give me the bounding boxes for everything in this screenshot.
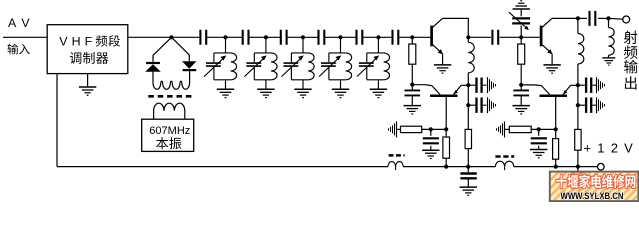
wire Q3 base down: [445, 97, 447, 129]
svg-text:A V: A V: [8, 16, 31, 30]
trimmer capacitor CT6: [520, 10, 522, 17]
trimmer capacitor CT5: [357, 55, 379, 76]
ground tank4: [332, 89, 349, 97]
transformer T1 primary: [153, 81, 190, 89]
node M: [576, 16, 580, 20]
wire node K down: [520, 37, 522, 44]
resistor R8: [555, 129, 557, 138]
wire node E down: [467, 85, 469, 105]
trimmer capacitor CT1: [204, 55, 226, 76]
wire R2 to nodes: [422, 128, 447, 130]
wire bottom +12V rail: [57, 166, 388, 168]
choke FB1: [388, 162, 403, 167]
node S: [576, 165, 580, 169]
ground under C19: [569, 187, 586, 195]
wire node B down: [411, 37, 413, 44]
capacitor C17 bypass: [578, 97, 605, 113]
wire Q2 collector: [552, 17, 578, 19]
wire Q3 emitter to node E: [461, 84, 468, 86]
wire Q2 emitter ground: [551, 54, 553, 64]
resistor R2: [401, 126, 422, 132]
resistor R5: [518, 44, 525, 64]
wire box to ground: [87, 74, 89, 87]
capacitor C14: [467, 167, 469, 172]
node C: [410, 83, 414, 87]
wire collector to C10: [578, 17, 587, 19]
node I: [444, 165, 448, 169]
trimmer capacitor CT2: [244, 55, 266, 76]
wire rail right: [514, 166, 598, 168]
node B: [410, 35, 414, 39]
resistor R3: [465, 129, 471, 148]
choke FB2: [495, 161, 513, 166]
ground Q1 emitter: [434, 65, 451, 73]
inductor L4: [346, 53, 352, 80]
wire node C to T2: [412, 84, 432, 87]
wire C10 to node T: [598, 17, 609, 19]
inductor L7: [577, 18, 579, 33]
svg-text:WWW.SYLXB.CN: WWW.SYLXB.CN: [561, 190, 624, 201]
trimmer capacitor CT4: [319, 55, 341, 76]
capacitor C12 bypass: [468, 97, 495, 113]
wire gnd to R6: [505, 128, 509, 130]
ground tank3: [294, 89, 311, 97]
capacitor C5: [357, 30, 363, 45]
node tank1: [223, 35, 227, 39]
transistor Q2: [540, 26, 543, 47]
wire R5 to node L: [520, 64, 522, 85]
wire node L to Q4: [521, 84, 541, 87]
transistor Q1: [430, 26, 433, 47]
inductor L3: [308, 53, 314, 80]
capacitor C3: [281, 30, 287, 45]
capacitor C18: [538, 129, 540, 135]
capacitor C13: [430, 129, 432, 135]
node J: [466, 165, 470, 169]
wire Q4 base down: [555, 97, 557, 129]
ground under C9: [404, 106, 421, 114]
inductor L6: [467, 37, 469, 42]
ground sideways stage1: [389, 121, 397, 137]
ground under C15: [513, 106, 530, 114]
node E: [466, 83, 470, 87]
node F: [466, 103, 470, 107]
capacitor C11 bypass: [468, 77, 495, 93]
node N: [576, 83, 580, 87]
capacitor C7: [492, 30, 498, 45]
svg-text:607MHz: 607MHz: [149, 125, 190, 137]
input label 输入: [7, 44, 18, 55]
VHF modulator box U1: [47, 25, 128, 74]
node L: [519, 83, 523, 87]
node D: [466, 35, 470, 39]
wire +12V feed left: [56, 74, 58, 167]
wire rail to C7: [468, 36, 540, 38]
transistor Q3: [430, 94, 458, 97]
resistor R1: [409, 44, 416, 64]
node O: [576, 103, 580, 107]
wire node N down: [577, 85, 579, 105]
wire rail mid: [403, 166, 495, 168]
wire node O to R7: [577, 105, 579, 129]
node tank3: [301, 35, 305, 39]
watermark title: [556, 175, 567, 188]
wire tank3 frame: [291, 37, 308, 88]
capacitor C9: [411, 85, 413, 91]
wire diagonals to diodes: [153, 37, 190, 83]
ground tank5: [370, 89, 387, 97]
node tank5: [376, 35, 380, 39]
node H: [444, 127, 448, 131]
capacitor C4: [319, 30, 325, 45]
wire to RF terminal: [609, 17, 623, 20]
node K: [519, 35, 523, 39]
node R: [554, 165, 558, 169]
wire Q1 emitter to ground: [442, 54, 444, 64]
capacitor C16 bypass: [578, 77, 605, 93]
node tank4: [338, 35, 342, 39]
wire tank1 frame: [214, 37, 231, 88]
wire Q1 collector: [442, 18, 468, 37]
wire Q4 emitter to node N: [571, 84, 578, 86]
svg-text:+ 1 2 V: + 1 2 V: [584, 140, 635, 155]
ground tank2: [257, 89, 274, 97]
diode D2: [182, 61, 196, 69]
inverted ground stage2: [513, 1, 530, 9]
inductor L1: [231, 53, 237, 80]
resistor R6: [509, 126, 531, 132]
capacitor C15: [520, 85, 522, 91]
diode D1: [146, 62, 160, 64]
resistor R4: [445, 129, 447, 137]
capacitor C1: [200, 30, 206, 45]
RF output terminal: [623, 16, 630, 23]
capacitor C6: [393, 30, 399, 45]
wire node F to R3: [467, 105, 469, 129]
resistor R7: [575, 129, 581, 150]
transformer T1 core: [148, 95, 192, 98]
ground under C14: [460, 187, 477, 195]
wire AV input: [3, 36, 47, 38]
+12V terminal: [598, 163, 605, 170]
wire tank5 frame: [367, 37, 384, 88]
local oscillator box U2 607MHz: [142, 119, 194, 151]
svg-text:V H F: V H F: [59, 34, 92, 48]
node G: [429, 127, 433, 131]
ground under C18: [530, 150, 547, 158]
wire R6 to nodes: [531, 128, 556, 130]
ground under L8: [602, 58, 615, 65]
node Q: [554, 127, 558, 131]
inductor L2: [271, 53, 277, 80]
inductor L8: [608, 18, 610, 27]
transistor Q4: [540, 94, 568, 97]
capacitor C2: [243, 30, 249, 45]
node tank2: [264, 35, 268, 39]
wire R1 to node C: [411, 64, 413, 84]
ground under U1: [79, 87, 96, 95]
wire C9 to ground: [411, 95, 413, 105]
node A: [169, 35, 173, 39]
wire main rail segments: [128, 36, 431, 38]
ground Q2 emitter: [543, 65, 560, 73]
ground sideways stage2: [497, 121, 505, 137]
capacitor C19: [577, 167, 579, 172]
ground tank1: [217, 89, 234, 97]
node T: [606, 16, 610, 20]
node P: [537, 127, 541, 131]
wire tank4 frame: [329, 37, 346, 88]
ground under C13: [422, 150, 439, 158]
RF output label 射频输出: [624, 31, 638, 44]
wire R7 to rail: [577, 150, 579, 166]
trimmer capacitor CT3: [282, 55, 304, 76]
wire tank2 frame: [254, 37, 271, 88]
transformer T1 secondary: [154, 103, 185, 119]
capacitor C10: [590, 11, 596, 26]
wire R3 to rail: [467, 149, 469, 167]
wire gnd to R2: [397, 128, 400, 130]
inductor L5: [384, 53, 390, 80]
